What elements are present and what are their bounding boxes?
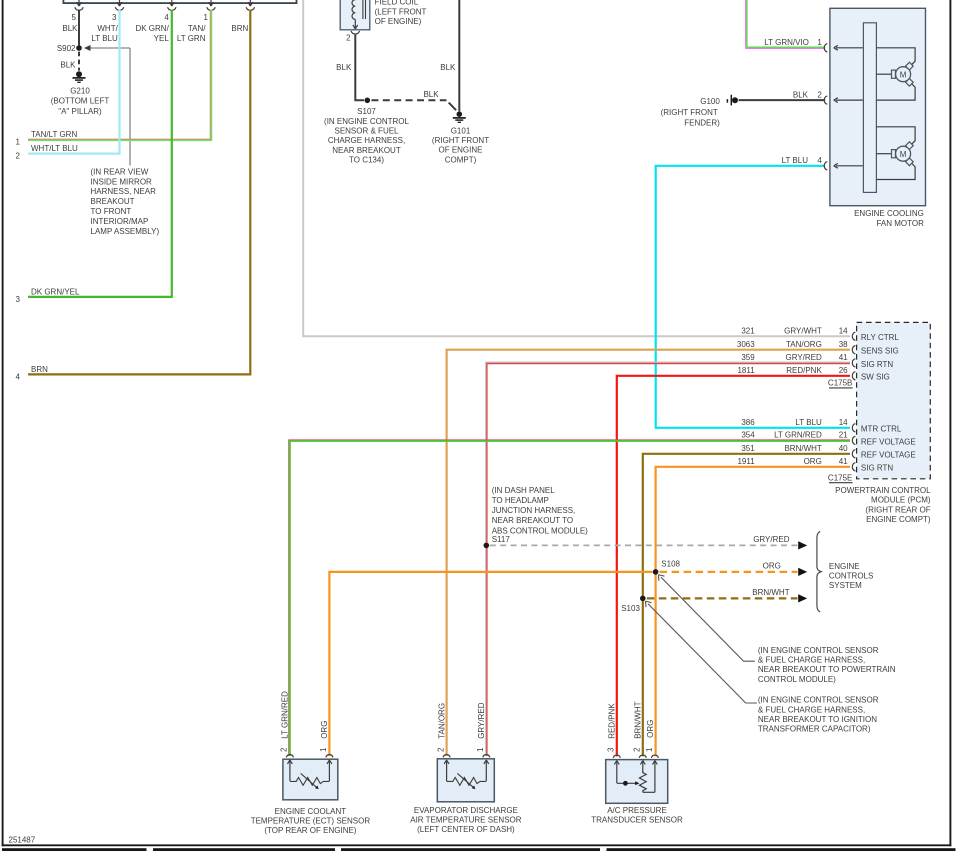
svg-text:RED/PNK: RED/PNK [608, 703, 617, 739]
wire LT BLU fan pin4 to PCM [656, 166, 850, 428]
ECT thermistor [290, 773, 330, 789]
svg-text:REF VOLTAGE: REF VOLTAGE [861, 451, 916, 460]
splice S117 dot [484, 543, 490, 549]
wire BLK from pin5 to S902 [78, 10, 80, 46]
svg-text:351: 351 [741, 444, 755, 453]
svg-text:1911: 1911 [737, 457, 755, 466]
svg-text:TO FRONT: TO FRONT [91, 207, 132, 216]
label G101 [432, 126, 489, 164]
label evaporator discharge sensor [410, 806, 522, 834]
powertrain control module box [857, 322, 931, 478]
label LT GRN/VIO 1 [764, 38, 822, 47]
svg-text:BRN: BRN [31, 365, 48, 374]
svg-text:LAMP ASSEMBLY): LAMP ASSEMBLY) [91, 227, 160, 236]
svg-text:38: 38 [839, 340, 848, 349]
label S107 location [324, 107, 409, 165]
svg-text:TAN/LT GRN: TAN/LT GRN [31, 130, 77, 139]
svg-text:INTERIOR/MAP: INTERIOR/MAP [91, 217, 149, 226]
wire BLK dashed S107 to G101 [371, 100, 456, 110]
wire BLK G100 to fan pin2 [739, 99, 826, 101]
svg-text:TAN/ORG: TAN/ORG [437, 703, 446, 739]
svg-text:HARNESS, NEAR: HARNESS, NEAR [91, 187, 157, 196]
svg-text:SENS SIG: SENS SIG [861, 347, 899, 356]
svg-text:321: 321 [741, 327, 755, 336]
connector C175E label [828, 473, 853, 482]
arrow to engine controls 1 [798, 541, 807, 549]
svg-text:41: 41 [839, 353, 848, 362]
svg-text:ORG: ORG [804, 457, 822, 466]
svg-text:BLK: BLK [60, 60, 76, 69]
svg-text:3: 3 [112, 13, 117, 22]
connector pin symbol x=250.3 [246, 0, 254, 10]
callout line from S103 [646, 601, 757, 703]
callout line from S108 [658, 575, 754, 662]
svg-text:MTR CTRL: MTR CTRL [861, 425, 902, 434]
wire LT GRN/VIO to fan pin1 [746, 0, 826, 48]
footer diagram number 251487 [9, 835, 36, 844]
label BRN/WHT dashed [752, 588, 789, 597]
connector pin symbol x=171.8 [168, 0, 176, 10]
svg-text:FENDER): FENDER) [684, 118, 720, 127]
svg-text:ENGINE COOLANT: ENGINE COOLANT [275, 807, 347, 816]
PCM pin 26 RED/PNK [737, 366, 889, 382]
svg-text:TO C134): TO C134) [349, 156, 384, 165]
label BLK pin5 [62, 24, 78, 33]
svg-text:BREAKOUT: BREAKOUT [91, 197, 135, 206]
svg-text:M: M [900, 71, 907, 80]
svg-text:1: 1 [16, 138, 21, 147]
svg-text:SENSOR & FUEL: SENSOR & FUEL [334, 127, 399, 136]
callout line to S902 [84, 45, 130, 166]
label a/c pressure transducer sensor [591, 806, 683, 825]
svg-text:LT GRN: LT GRN [177, 34, 206, 43]
AC internal arrows [614, 761, 657, 793]
svg-text:2: 2 [280, 747, 289, 752]
note S103 location [758, 696, 879, 734]
svg-text:(IN ENGINE CONTROL: (IN ENGINE CONTROL [324, 117, 409, 126]
splice S103 dot [621, 596, 645, 613]
label BLK field coil [336, 63, 352, 72]
svg-text:BLK: BLK [793, 91, 809, 100]
AC transducer internals [617, 772, 655, 793]
field coil box [340, 0, 370, 30]
svg-text:S902: S902 [57, 44, 76, 53]
svg-text:POWERTRAIN CONTROL: POWERTRAIN CONTROL [835, 486, 931, 495]
svg-text:TAN/ORG: TAN/ORG [786, 340, 822, 349]
svg-text:1: 1 [817, 38, 822, 47]
svg-text:OF ENGINE: OF ENGINE [438, 146, 482, 155]
PCM pin 14 LT BLU [741, 418, 902, 434]
note S108 location [758, 646, 896, 684]
svg-text:3: 3 [16, 295, 21, 304]
svg-text:21: 21 [839, 431, 848, 440]
svg-text:40: 40 [839, 444, 848, 453]
engine controls system brace [817, 531, 821, 612]
svg-text:& FUEL CHARGE HARNESS,: & FUEL CHARGE HARNESS, [758, 656, 865, 665]
svg-text:ENGINE COMPT): ENGINE COMPT) [866, 515, 931, 524]
svg-text:(RIGHT FRONT: (RIGHT FRONT [661, 108, 718, 117]
engine cooling fan motor box [830, 8, 926, 205]
svg-text:RED/PNK: RED/PNK [786, 366, 822, 375]
field coil pin 2 [346, 31, 359, 43]
svg-text:1: 1 [204, 13, 209, 22]
svg-text:S108: S108 [661, 560, 680, 569]
svg-text:(TOP REAR OF ENGINE): (TOP REAR OF ENGINE) [264, 826, 356, 835]
svg-text:1: 1 [319, 747, 328, 752]
svg-text:RLY CTRL: RLY CTRL [861, 333, 899, 342]
wire BLK dashed to G210 [78, 52, 80, 71]
svg-text:386: 386 [741, 418, 755, 427]
svg-text:AIR TEMPERATURE SENSOR: AIR TEMPERATURE SENSOR [410, 815, 522, 824]
ECT pin 2 [280, 747, 294, 757]
svg-text:ORG: ORG [320, 721, 329, 739]
fan connector pin 2 [824, 96, 863, 104]
EVAP pin 1 [476, 747, 490, 757]
pin number 4 [164, 13, 169, 22]
wire BLK field coil to S107 [355, 35, 364, 101]
label LT BLU 4 [782, 156, 823, 165]
label TAN/ORG vertical [437, 703, 446, 739]
svg-text:WHT/: WHT/ [97, 24, 118, 33]
svg-text:(LEFT CENTER OF DASH): (LEFT CENTER OF DASH) [417, 825, 515, 834]
svg-text:INSIDE MIRROR: INSIDE MIRROR [91, 177, 153, 186]
wire TAN/ORG circuit 3063 [447, 350, 850, 756]
svg-text:G210: G210 [70, 86, 90, 95]
svg-text:2: 2 [346, 34, 351, 43]
svg-text:2: 2 [16, 152, 21, 161]
svg-text:BLK: BLK [336, 63, 352, 72]
wire ORG ECT to S108 [329, 572, 652, 756]
pin number 1 [204, 13, 209, 22]
svg-text:COMPT): COMPT) [445, 155, 477, 164]
wire LT GRN/RED circuit 354 [289, 440, 850, 756]
EVAP pin 2 [436, 747, 450, 757]
label BLK at S902 [60, 60, 76, 69]
label 1 TAN/LT GRN [16, 130, 78, 147]
label S902 [57, 44, 76, 53]
svg-text:354: 354 [741, 431, 755, 440]
wire BRN/WHT circuit 351 [643, 454, 850, 757]
label TAN/LT GRN pin1 [177, 24, 206, 43]
splice S107 dot [365, 98, 371, 104]
svg-text:2: 2 [633, 747, 642, 752]
svg-text:(IN REAR VIEW: (IN REAR VIEW [91, 167, 149, 176]
arrow to engine controls 2 [798, 568, 807, 576]
svg-text:SYSTEM: SYSTEM [829, 581, 862, 590]
svg-text:DK GRN/YEL: DK GRN/YEL [31, 288, 80, 297]
label G100 [661, 97, 721, 127]
evaporator discharge air temperature sensor box [437, 759, 494, 802]
svg-text:BRN: BRN [231, 24, 248, 33]
svg-text:OF ENGINE): OF ENGINE) [375, 17, 422, 26]
svg-text:REF VOLTAGE: REF VOLTAGE [861, 437, 916, 446]
svg-text:GRY/WHT: GRY/WHT [784, 327, 822, 336]
connector box (top, cut off) [63, 0, 296, 3]
svg-text:ORG: ORG [646, 720, 655, 738]
svg-text:(RIGHT REAR OF: (RIGHT REAR OF [865, 505, 930, 514]
svg-text:BLK: BLK [62, 24, 78, 33]
label BRN/WHT vertical [634, 701, 643, 738]
lower motor wiring [876, 127, 915, 180]
label RED/PNK vertical [608, 703, 617, 739]
note S902 location [91, 167, 160, 235]
label ORG vertical AC [646, 720, 655, 738]
svg-text:MODULE (PCM): MODULE (PCM) [871, 496, 931, 505]
svg-text:14: 14 [839, 418, 848, 427]
label engine cooling fan motor [854, 209, 924, 228]
fan inner bus bar [863, 23, 876, 193]
ECT pin 1 [319, 747, 333, 757]
arrow to engine controls 3 [798, 594, 807, 602]
field coil winding [352, 0, 358, 29]
PCM pin 38 TAN/ORG [737, 340, 899, 356]
connector pin symbol x=211 [207, 0, 215, 10]
svg-text:BRN/WHT: BRN/WHT [784, 444, 821, 453]
svg-text:A/C PRESSURE: A/C PRESSURE [607, 806, 667, 815]
svg-text:G101: G101 [451, 126, 471, 135]
EVAP thermistor [447, 773, 487, 789]
svg-text:2: 2 [436, 747, 445, 752]
label GRY/RED dashed [753, 535, 790, 544]
svg-text:FAN MOTOR: FAN MOTOR [876, 219, 924, 228]
svg-text:LT BLU: LT BLU [782, 156, 809, 165]
svg-text:(RIGHT FRONT: (RIGHT FRONT [432, 136, 489, 145]
svg-text:3: 3 [607, 747, 616, 752]
svg-text:M: M [900, 150, 907, 159]
wire BRN circuit 4 [28, 10, 250, 375]
svg-text:& FUEL CHARGE HARNESS,: & FUEL CHARGE HARNESS, [758, 705, 865, 714]
svg-text:ENGINE COOLING: ENGINE COOLING [854, 209, 924, 218]
label ORG dashed [763, 561, 781, 570]
svg-text:(IN DASH PANEL: (IN DASH PANEL [492, 486, 556, 495]
ground G210 symbol [73, 71, 86, 82]
svg-text:C175B: C175B [828, 379, 852, 388]
svg-text:TRANSDUCER SENSOR: TRANSDUCER SENSOR [591, 816, 683, 825]
EVAP internal arrows [444, 760, 489, 781]
svg-text:26: 26 [839, 366, 848, 375]
svg-text:TEMPERATURE (ECT) SENSOR: TEMPERATURE (ECT) SENSOR [251, 816, 371, 825]
wire TAN/LT GRN circuit 1 [28, 10, 212, 141]
label 2 WHT/LT BLU [16, 144, 78, 161]
svg-text:S107: S107 [357, 107, 376, 116]
svg-text:5: 5 [72, 13, 77, 22]
wire RED/PNK circuit 1811 [617, 376, 850, 757]
connector C175B label [828, 379, 853, 388]
label FIELD COIL [375, 0, 427, 26]
PCM pin 40 BRN/WHT [741, 444, 915, 460]
svg-text:ENGINE: ENGINE [829, 562, 860, 571]
PCM pin 41 GRY/RED [741, 353, 893, 369]
splice S108 dot [653, 560, 681, 575]
svg-text:JUNCTION HARNESS,: JUNCTION HARNESS, [492, 506, 576, 515]
note S117 location [492, 486, 588, 544]
svg-text:NEAR BREAKOUT TO POWERTRAIN: NEAR BREAKOUT TO POWERTRAIN [758, 665, 896, 674]
label 3 DK GRN/YEL [16, 288, 80, 304]
wire GRY/WHT circuit 321 [303, 0, 850, 336]
svg-text:SIG RTN: SIG RTN [861, 360, 894, 369]
wire WHT/LT BLU circuit 2 [28, 10, 120, 154]
svg-text:CONTROL MODULE): CONTROL MODULE) [758, 675, 836, 684]
wire GRY/RED dashed to engine controls [490, 544, 798, 546]
svg-text:4: 4 [164, 13, 169, 22]
svg-text:4: 4 [817, 156, 822, 165]
ground G101 symbol [453, 111, 466, 122]
PCM pin 21 LT GRN/RED [741, 431, 915, 447]
svg-text:WHT/LT BLU: WHT/LT BLU [31, 144, 78, 153]
connector pin symbol x=119.5 [115, 0, 123, 10]
upper motor wiring [876, 48, 915, 100]
svg-text:GRY/RED: GRY/RED [753, 535, 790, 544]
svg-text:BRN/WHT: BRN/WHT [634, 701, 643, 738]
svg-text:BLK: BLK [423, 90, 439, 99]
label BRN [231, 24, 248, 33]
connector pin symbol x=79 [75, 0, 83, 10]
svg-text:SIG RTN: SIG RTN [861, 464, 894, 473]
svg-text:(BOTTOM LEFT: (BOTTOM LEFT [51, 97, 110, 106]
label 4 BRN [16, 365, 49, 382]
label ORG vertical ECT [320, 721, 329, 739]
pin number 3 [112, 13, 117, 22]
svg-text:1811: 1811 [737, 366, 755, 375]
svg-text:TRANSFORMER CAPACITOR): TRANSFORMER CAPACITOR) [758, 725, 871, 734]
svg-text:DK GRN/: DK GRN/ [135, 24, 169, 33]
splice S902 dot [76, 45, 82, 51]
wire BRN/WHT dashed to engine controls [647, 597, 798, 599]
field coil core [363, 0, 366, 19]
wire ORG circuit 1911 [656, 467, 850, 757]
svg-text:LT GRN/RED: LT GRN/RED [281, 691, 290, 739]
svg-text:LT BLU: LT BLU [91, 34, 118, 43]
engine coolant temperature sensor box [283, 759, 338, 800]
label BLK right [440, 63, 456, 72]
AC pin 2 [633, 747, 647, 758]
motor M1 [892, 62, 914, 86]
label G210 [51, 86, 110, 115]
wire GRY/RED circuit 359 [486, 362, 850, 756]
svg-text:EVAPORATOR DISCHARGE: EVAPORATOR DISCHARGE [414, 806, 518, 815]
svg-text:"A" PILLAR): "A" PILLAR) [58, 107, 102, 116]
label WHT/LT BLU pin3 [91, 24, 118, 43]
svg-text:4: 4 [16, 373, 21, 382]
svg-text:G100: G100 [700, 97, 720, 106]
svg-text:NEAR BREAKOUT TO IGNITION: NEAR BREAKOUT TO IGNITION [758, 715, 877, 724]
svg-text:1: 1 [645, 747, 654, 752]
wire BLK to G101 [458, 0, 460, 111]
svg-text:ORG: ORG [763, 561, 781, 570]
label GRY/RED vertical [477, 702, 486, 739]
PCM pin 14 GRY/WHT [741, 327, 899, 343]
svg-text:359: 359 [741, 353, 755, 362]
svg-text:251487: 251487 [9, 835, 36, 844]
ground G100 symbol [727, 95, 738, 106]
svg-text:(LEFT FRONT: (LEFT FRONT [375, 7, 427, 16]
bottom thumbnail bar [2, 848, 956, 851]
label BLK dashed [423, 90, 439, 99]
svg-text:1: 1 [476, 747, 485, 752]
svg-text:NEAR BREAKOUT TO: NEAR BREAKOUT TO [492, 516, 573, 525]
motor M2 [892, 142, 914, 166]
svg-text:3063: 3063 [737, 340, 755, 349]
svg-text:14: 14 [839, 327, 848, 336]
svg-text:CONTROLS: CONTROLS [829, 571, 873, 580]
svg-text:CHARGE HARNESS,: CHARGE HARNESS, [328, 136, 405, 145]
wire ORG dashed to engine controls [660, 571, 798, 573]
label engine coolant temperature sensor [251, 807, 371, 835]
fan connector pin 1 [824, 44, 863, 52]
a/c pressure transducer sensor box [606, 760, 668, 804]
fan connector pin 4 [824, 162, 863, 170]
svg-text:BLK: BLK [440, 63, 456, 72]
svg-text:2: 2 [817, 91, 822, 100]
label engine controls system [829, 562, 873, 590]
svg-text:YEL: YEL [154, 34, 170, 43]
label LT GRN/RED vertical [281, 691, 290, 739]
svg-text:C175E: C175E [828, 473, 852, 482]
PCM pin 41 ORG [737, 457, 893, 473]
svg-text:(IN ENGINE CONTROL SENSOR: (IN ENGINE CONTROL SENSOR [758, 646, 879, 655]
pin number 5 [72, 13, 77, 22]
svg-text:S117: S117 [492, 535, 511, 544]
wire DK GRN/YEL circuit 3 [28, 10, 172, 297]
ECT internal arrows [288, 760, 332, 781]
svg-text:TO HEADLAMP: TO HEADLAMP [492, 496, 549, 505]
svg-text:LT GRN/VIO: LT GRN/VIO [764, 38, 809, 47]
svg-text:NEAR BREAKOUT: NEAR BREAKOUT [332, 146, 401, 155]
svg-text:FIELD COIL: FIELD COIL [375, 0, 419, 7]
AC pin 1 [645, 747, 659, 758]
svg-text:41: 41 [839, 457, 848, 466]
AC pin 3 [607, 747, 621, 758]
svg-text:BRN/WHT: BRN/WHT [752, 588, 789, 597]
label BLK 2 [793, 91, 822, 100]
svg-text:TAN/: TAN/ [188, 24, 206, 33]
svg-text:GRY/RED: GRY/RED [785, 353, 822, 362]
label powertrain control module [835, 486, 931, 524]
svg-text:(IN ENGINE CONTROL SENSOR: (IN ENGINE CONTROL SENSOR [758, 696, 879, 705]
svg-text:GRY/RED: GRY/RED [477, 702, 486, 739]
svg-text:LT BLU: LT BLU [795, 418, 822, 427]
label DK GRN/YEL pin4 [135, 24, 169, 43]
svg-text:S103: S103 [621, 604, 640, 613]
svg-text:LT GRN/RED: LT GRN/RED [774, 431, 822, 440]
svg-text:SW SIG: SW SIG [861, 373, 890, 382]
